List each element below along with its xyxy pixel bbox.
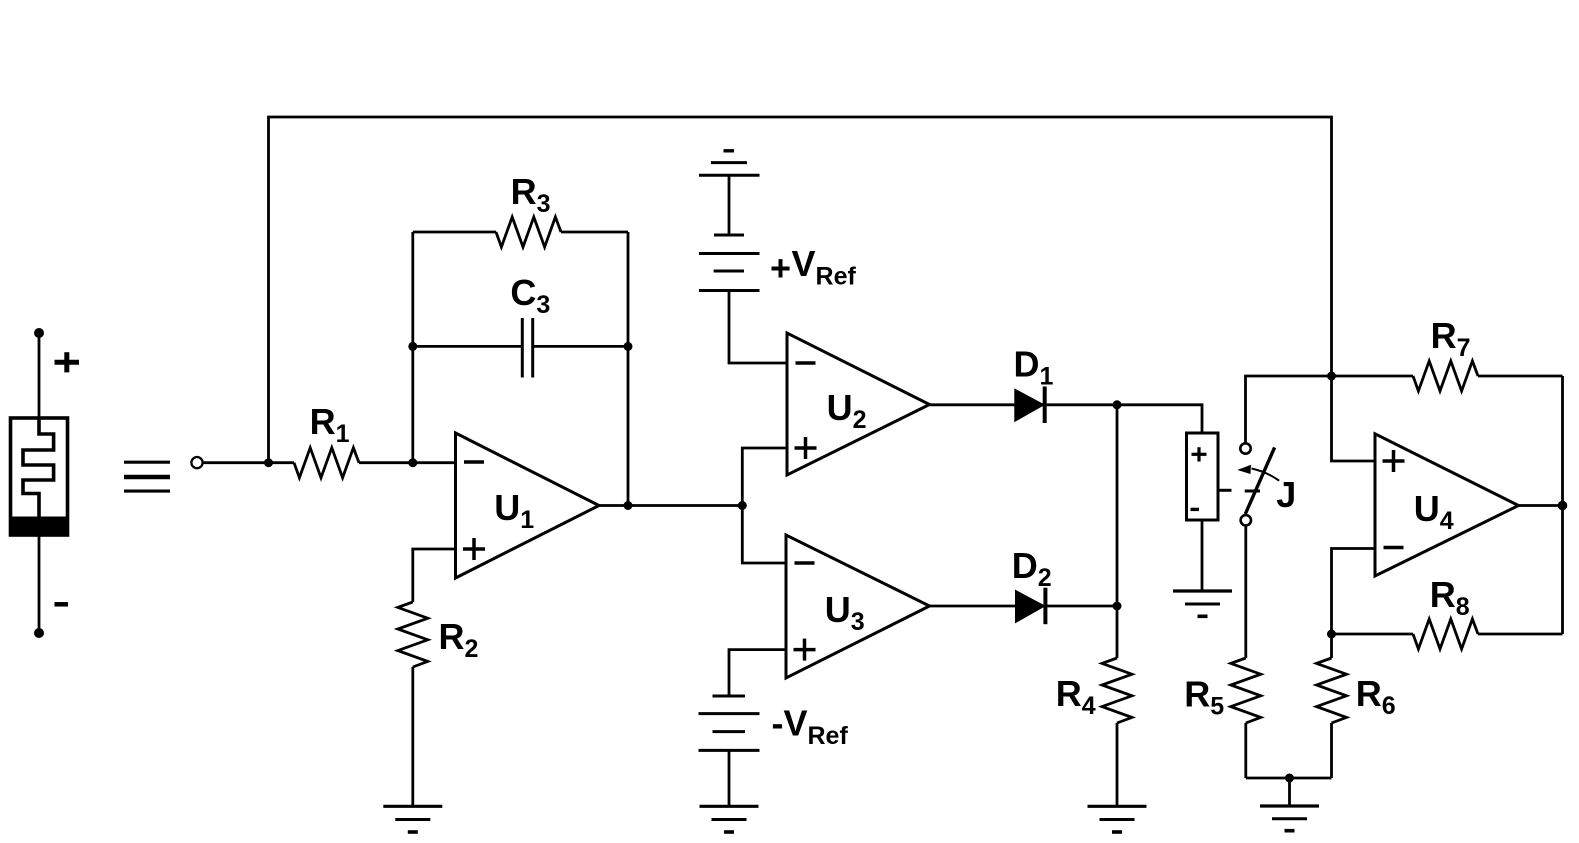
wire R7 right vertical	[1561, 376, 1564, 506]
input terminal (open circle)	[191, 457, 202, 468]
wire ground junction to ground	[1288, 778, 1291, 806]
wire D1 node to D2 node	[1116, 405, 1119, 606]
wire U4 output	[1519, 504, 1563, 507]
capacitor C3	[413, 318, 628, 378]
op-amp U1	[456, 433, 600, 578]
node ground junction	[1285, 774, 1294, 783]
switch J	[1237, 443, 1279, 525]
node D1 output	[1113, 400, 1122, 409]
wire R8 right vertical	[1561, 506, 1564, 635]
resistor R1	[269, 448, 456, 478]
ground (R4)	[1088, 806, 1147, 832]
ground (inverted, +VRef negative terminal)	[699, 151, 760, 176]
wire U1 non-inverting input	[413, 549, 456, 602]
ground (R5/R6)	[1260, 806, 1319, 831]
node U1 output	[624, 501, 633, 510]
wire branch to U3 inverting input	[742, 506, 786, 564]
resistor R2	[398, 602, 428, 667]
wire input to junction	[203, 461, 269, 464]
op-amp U3	[786, 535, 930, 678]
equivalence symbol	[124, 462, 170, 491]
wire global feedback top loop	[269, 117, 1332, 463]
diode D2	[1016, 588, 1045, 625]
resistor R6	[1317, 634, 1347, 778]
node D2 output	[1113, 602, 1122, 611]
wire junction to U4 non-inverting input	[1332, 376, 1376, 461]
svg-text:+: +	[770, 248, 791, 289]
memristor + terminal dot	[34, 328, 44, 338]
wire R5-R6 bottom	[1246, 777, 1332, 780]
resistor R3	[413, 217, 628, 247]
memristor top lead	[38, 333, 41, 418]
memristor bottom lead	[38, 535, 41, 633]
wire R2 to ground	[411, 667, 414, 806]
wire feedback left vertical	[411, 232, 414, 463]
diode D1	[1015, 387, 1044, 424]
battery box (reference cell)	[1187, 433, 1232, 520]
node C3 right	[624, 342, 633, 351]
resistor R4	[1102, 606, 1132, 806]
node U1 inverting input	[408, 458, 417, 467]
wire D1 node to battery box	[1117, 405, 1202, 433]
wire switch top to node	[1246, 376, 1332, 443]
memristor M (symbol box with square-wave)	[9, 418, 69, 535]
resistor R7	[1332, 361, 1563, 391]
wire U4 inverting input	[1332, 549, 1376, 635]
node branch	[738, 501, 747, 510]
battery +VRef	[699, 175, 760, 290]
battery -VRef	[699, 696, 760, 750]
wire -VRef to ground	[728, 750, 731, 806]
wire U1 output to branch	[599, 504, 742, 507]
wire U2 output to D1 node	[930, 403, 1118, 406]
node input junction	[264, 458, 273, 467]
ground (-VRef)	[700, 806, 759, 832]
wire U3 output to D2 node	[930, 605, 1118, 608]
- polarity label	[55, 602, 69, 607]
memristor - terminal dot	[34, 628, 44, 638]
op-amp U2	[787, 333, 930, 475]
wire U3 non-inverting input to -VRef	[729, 650, 786, 696]
node top-right junction	[1327, 372, 1336, 381]
node R8/R6 junction	[1327, 630, 1336, 639]
node C3 left	[408, 342, 417, 351]
wire feedback right vertical	[627, 232, 630, 506]
wire battery box to ground	[1201, 520, 1204, 591]
svg-text:J: J	[1276, 474, 1296, 515]
ground (battery box)	[1173, 591, 1232, 616]
+ polarity label	[55, 352, 80, 372]
resistor R8	[1332, 619, 1563, 649]
wire +VRef to U2 inverting input	[729, 291, 787, 364]
resistor R5	[1231, 526, 1261, 779]
node U4 output	[1558, 501, 1568, 511]
wire branch to U2 non-inverting input	[742, 448, 787, 506]
ground (R2)	[383, 806, 442, 832]
op-amp U4	[1375, 434, 1519, 576]
